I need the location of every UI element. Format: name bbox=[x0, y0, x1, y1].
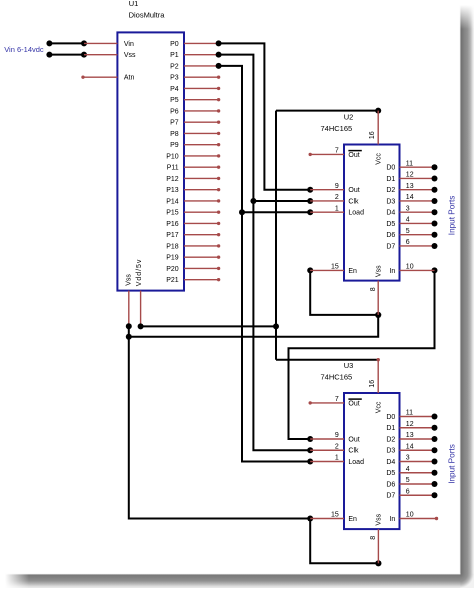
wire P1 pin stub bbox=[184, 54, 219, 56]
svg-text:Vss: Vss bbox=[375, 265, 382, 277]
svg-text:DiosMultra: DiosMultra bbox=[129, 10, 166, 19]
svg-text:D4: D4 bbox=[386, 210, 395, 217]
page shadow right bbox=[460, 5, 474, 574]
wire U2 D5 input port stub bbox=[400, 220, 438, 226]
svg-text:P4: P4 bbox=[170, 86, 179, 93]
wire P0 pin stub bbox=[184, 42, 219, 44]
svg-text:D5: D5 bbox=[386, 470, 395, 477]
svg-text:Clk: Clk bbox=[348, 448, 359, 455]
wire P14 pin stub (open) bbox=[184, 199, 220, 202]
label Vin 6-14vdc bbox=[4, 45, 44, 54]
page shadow bottom bbox=[5, 574, 460, 588]
svg-text:Atn: Atn bbox=[124, 75, 135, 82]
svg-text:1: 1 bbox=[335, 455, 339, 462]
svg-text:9: 9 bbox=[335, 183, 339, 190]
svg-text:P12: P12 bbox=[166, 176, 179, 183]
svg-text:In: In bbox=[389, 516, 395, 523]
svg-text:6: 6 bbox=[406, 488, 410, 495]
wire U2 D3 input port stub bbox=[400, 198, 438, 204]
svg-text:9: 9 bbox=[335, 432, 339, 439]
svg-text:P13: P13 bbox=[166, 187, 179, 194]
svg-text:D2: D2 bbox=[386, 436, 395, 443]
svg-text:Clk: Clk bbox=[348, 198, 359, 205]
wire U2 D6 input port stub bbox=[400, 232, 438, 238]
svg-text:74HC165: 74HC165 bbox=[321, 372, 353, 381]
wire P5 pin stub (open) bbox=[184, 98, 220, 101]
svg-text:P16: P16 bbox=[166, 221, 179, 228]
svg-text:D4: D4 bbox=[386, 459, 395, 466]
svg-text:16: 16 bbox=[369, 131, 376, 139]
wire P21 pin stub (open) bbox=[184, 278, 220, 281]
wire U3 Vss pin stub bbox=[377, 529, 379, 563]
IC U2 74HC165 body bbox=[321, 113, 414, 292]
wire P2 pin stub bbox=[184, 65, 219, 67]
svg-text:P20: P20 bbox=[166, 266, 179, 273]
wire U3 D6 input port stub bbox=[400, 481, 438, 487]
wire P15 pin stub (open) bbox=[184, 210, 220, 213]
svg-text:D0: D0 bbox=[386, 414, 395, 421]
wire U3 D5 input port stub bbox=[400, 470, 438, 476]
wire U2 Vss pin stub bbox=[377, 281, 379, 315]
svg-text:11: 11 bbox=[406, 160, 413, 167]
svg-text:2: 2 bbox=[335, 443, 339, 450]
svg-text:Vin: Vin bbox=[124, 41, 134, 48]
page shadow corner bbox=[460, 574, 474, 588]
wire U2 In pin stub bbox=[400, 269, 435, 271]
svg-text:P9: P9 bbox=[170, 142, 179, 149]
wire Atn pin stub bbox=[81, 75, 117, 78]
wire P9 pin stub (open) bbox=[184, 143, 220, 146]
wire P19 pin stub (open) bbox=[184, 255, 220, 258]
svg-text:3: 3 bbox=[406, 205, 410, 212]
svg-text:P7: P7 bbox=[170, 120, 179, 127]
svg-text:D0: D0 bbox=[386, 165, 395, 172]
wire U2 Vcc pin stub bbox=[377, 111, 379, 145]
wire P16 pin stub (open) bbox=[184, 222, 220, 225]
svg-text:Out: Out bbox=[348, 400, 359, 407]
wire U2 D7 input port stub bbox=[400, 243, 438, 249]
svg-text:14: 14 bbox=[406, 194, 414, 201]
svg-text:Out: Out bbox=[348, 152, 359, 159]
svg-text:Vss: Vss bbox=[124, 52, 136, 59]
svg-text:D5: D5 bbox=[386, 221, 395, 228]
IC U3 74HC165 body bbox=[321, 361, 414, 540]
svg-text:4: 4 bbox=[406, 217, 410, 224]
svg-text:4: 4 bbox=[406, 466, 410, 473]
svg-text:11: 11 bbox=[406, 410, 413, 417]
svg-text:Out: Out bbox=[348, 187, 359, 194]
wire U1 Vss bottom pin bbox=[128, 291, 130, 327]
svg-text:P21: P21 bbox=[166, 277, 179, 284]
wire net P0 to U2 Out bbox=[216, 40, 314, 192]
svg-text:12: 12 bbox=[406, 421, 414, 428]
svg-text:Input Ports: Input Ports bbox=[447, 444, 456, 484]
svg-text:P2: P2 bbox=[170, 63, 179, 70]
svg-text:P18: P18 bbox=[166, 243, 179, 250]
svg-text:P19: P19 bbox=[166, 255, 179, 262]
svg-text:P17: P17 bbox=[166, 232, 179, 239]
wire U2 D0 input port stub bbox=[400, 164, 438, 170]
wire U2 pin 7 /Out stub (open) bbox=[309, 153, 345, 156]
svg-text:5: 5 bbox=[406, 477, 410, 484]
wire P10 pin stub (open) bbox=[184, 154, 220, 157]
svg-text:D3: D3 bbox=[386, 198, 395, 205]
wire U2 D4 input port stub bbox=[400, 209, 438, 215]
svg-text:10: 10 bbox=[406, 264, 414, 271]
wire U3 pin 7 /Out stub (open) bbox=[309, 401, 345, 404]
wire P8 pin stub (open) bbox=[184, 132, 220, 135]
wire U3 D7 input port stub bbox=[400, 492, 438, 498]
svg-text:Input Ports: Input Ports bbox=[447, 196, 456, 236]
svg-text:Vcc: Vcc bbox=[375, 153, 382, 165]
svg-text:U1: U1 bbox=[129, 0, 139, 8]
wire P20 pin stub (open) bbox=[184, 267, 220, 270]
svg-text:10: 10 bbox=[406, 512, 414, 519]
svg-text:P8: P8 bbox=[170, 131, 179, 138]
wire Vss supply link bbox=[46, 52, 117, 58]
svg-text:15: 15 bbox=[331, 512, 339, 519]
wire Vin supply link bbox=[46, 40, 117, 46]
svg-text:U2: U2 bbox=[344, 113, 354, 122]
wire net Vss to U2 En/Vss and U3 En/Vss bbox=[126, 267, 382, 566]
wire U3 Out/Clk/Load pin stubs bbox=[310, 439, 344, 462]
svg-text:13: 13 bbox=[406, 432, 414, 439]
svg-text:16: 16 bbox=[369, 380, 376, 388]
wire net U2 In to U3 Out cascade bbox=[289, 267, 438, 442]
svg-text:7: 7 bbox=[335, 148, 339, 155]
svg-text:En: En bbox=[348, 516, 357, 523]
wire P6 pin stub (open) bbox=[184, 109, 220, 112]
wire P17 pin stub (open) bbox=[184, 233, 220, 236]
svg-text:P14: P14 bbox=[166, 198, 179, 205]
wire U3 En pin stub bbox=[310, 518, 344, 520]
svg-text:8: 8 bbox=[370, 287, 377, 291]
label Input Ports (U3) bbox=[447, 444, 456, 484]
wire P3 pin stub (open) bbox=[184, 75, 220, 78]
svg-text:Vdd/5v: Vdd/5v bbox=[136, 259, 143, 287]
wire U1 Vdd/5v bottom pin bbox=[140, 291, 142, 327]
svg-text:1: 1 bbox=[335, 205, 339, 212]
wire P11 pin stub (open) bbox=[184, 165, 220, 168]
svg-text:14: 14 bbox=[406, 443, 414, 450]
svg-text:P0: P0 bbox=[170, 41, 179, 48]
svg-text:3: 3 bbox=[406, 455, 410, 462]
svg-text:13: 13 bbox=[406, 183, 414, 190]
svg-text:In: In bbox=[389, 268, 395, 275]
wire U3 D4 input port stub bbox=[400, 459, 438, 465]
svg-text:6: 6 bbox=[406, 239, 410, 246]
wire U2 En pin stub bbox=[310, 269, 344, 271]
wire U2 Out/Clk/Load pin stubs bbox=[310, 190, 344, 213]
svg-text:15: 15 bbox=[331, 264, 339, 271]
wire U2 D1 input port stub bbox=[400, 175, 438, 181]
svg-text:P11: P11 bbox=[167, 165, 179, 172]
svg-text:2: 2 bbox=[335, 194, 339, 201]
svg-text:Out: Out bbox=[348, 436, 359, 443]
svg-text:7: 7 bbox=[335, 396, 339, 403]
svg-text:D1: D1 bbox=[386, 176, 395, 183]
wire net Vdd/5v to U2 Vcc and U3 Vcc bbox=[138, 108, 382, 362]
wire U3 Vcc pin stub bbox=[377, 360, 379, 393]
svg-text:D1: D1 bbox=[386, 425, 395, 432]
svg-text:Vcc: Vcc bbox=[375, 401, 382, 413]
wire U2 D2 input port stub bbox=[400, 187, 438, 193]
wire net P2 load to U2 Load and U3 Load bbox=[216, 63, 314, 465]
svg-text:P15: P15 bbox=[166, 210, 179, 217]
svg-text:D6: D6 bbox=[386, 481, 395, 488]
svg-text:D6: D6 bbox=[386, 232, 395, 239]
wire U3 D3 input port stub bbox=[400, 447, 438, 453]
wire U3 D1 input port stub bbox=[400, 425, 438, 431]
wire P18 pin stub (open) bbox=[184, 244, 220, 247]
svg-text:Load: Load bbox=[348, 210, 364, 217]
svg-text:D3: D3 bbox=[386, 448, 395, 455]
wire P12 pin stub (open) bbox=[184, 177, 220, 180]
svg-text:P6: P6 bbox=[170, 108, 179, 115]
wire U3 In pin stub (open) bbox=[400, 517, 439, 520]
svg-text:D2: D2 bbox=[386, 187, 395, 194]
wire P4 pin stub (open) bbox=[184, 87, 220, 90]
svg-text:D7: D7 bbox=[386, 243, 395, 250]
svg-text:P1: P1 bbox=[170, 52, 179, 59]
wire net P1 clock to U2 Clk and U3 Clk bbox=[216, 52, 314, 454]
IC U1 DiosMultra body bbox=[117, 0, 184, 291]
svg-text:Vin 6-14vdc: Vin 6-14vdc bbox=[4, 45, 44, 54]
svg-text:En: En bbox=[348, 268, 357, 275]
svg-text:P5: P5 bbox=[170, 97, 179, 104]
wire P7 pin stub (open) bbox=[184, 120, 220, 123]
svg-text:5: 5 bbox=[406, 228, 410, 235]
wire U3 D0 input port stub bbox=[400, 414, 438, 420]
svg-text:74HC165: 74HC165 bbox=[321, 124, 353, 133]
svg-text:Vss: Vss bbox=[375, 513, 382, 525]
svg-text:Load: Load bbox=[348, 459, 364, 466]
svg-text:12: 12 bbox=[406, 172, 414, 179]
label Input Ports (U2) bbox=[447, 196, 456, 236]
wire U3 D2 input port stub bbox=[400, 436, 438, 442]
svg-text:P3: P3 bbox=[170, 75, 179, 82]
svg-text:8: 8 bbox=[370, 536, 377, 540]
svg-text:P10: P10 bbox=[166, 153, 179, 160]
svg-text:Vss: Vss bbox=[126, 274, 133, 286]
wire P13 pin stub (open) bbox=[184, 188, 220, 191]
svg-text:U3: U3 bbox=[344, 361, 354, 370]
svg-text:D7: D7 bbox=[386, 493, 395, 500]
